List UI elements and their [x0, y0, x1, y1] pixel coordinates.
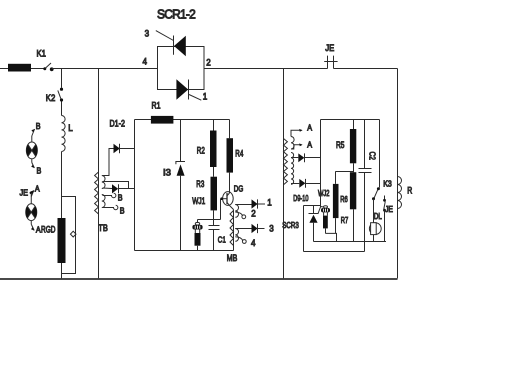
svg-text:R4: R4: [235, 149, 243, 159]
zener diode I3 column: [180, 120, 182, 162]
svg-text:I3: I3: [163, 168, 171, 178]
svg-text:A: A: [307, 122, 312, 132]
capacitor C1: [209, 226, 220, 251]
wire base lead: [221, 198, 228, 200]
wire fuse to K1: [31, 68, 44, 70]
svg-text:1: 1: [267, 197, 272, 207]
bell DL: [369, 223, 381, 242]
wire MB tap1 to diode: [235, 204, 251, 206]
wire S1 mid tap: [103, 182, 129, 189]
wire control common rail: [135, 250, 234, 252]
MB tap2 hook with terminal: [235, 212, 245, 219]
svg-text:K1: K1: [37, 49, 47, 59]
potentiometer WJ1: [192, 220, 202, 251]
svg-text:K3: K3: [383, 178, 392, 188]
transformer TB primary zigzag: [95, 172, 99, 214]
svg-text:B: B: [36, 121, 41, 131]
transformer MB primary: [230, 210, 234, 251]
MB secondary winding bottom: [235, 229, 238, 242]
wire bottom bus: [0, 278, 398, 280]
resistor R6 (filled): [350, 172, 356, 209]
zener diode I3: [176, 162, 185, 176]
diode D1: [114, 144, 135, 154]
svg-text:WJ1: WJ1: [192, 196, 205, 206]
resistor RGD (filled): [58, 218, 66, 263]
wire SCR3 bottom row: [304, 251, 365, 253]
wire SB to D10: [291, 183, 299, 185]
wire SA bottom arrow: [291, 143, 303, 149]
capacitor C2: [359, 169, 372, 252]
wire I3 to rail: [180, 176, 182, 251]
contact JE (right): [383, 196, 386, 242]
svg-text:B: B: [118, 192, 123, 202]
wire S2 top tap hook: [103, 193, 116, 197]
wire base down: [220, 199, 222, 220]
switch K3: [372, 187, 380, 223]
wire TB branch drop: [98, 69, 100, 279]
svg-text:B: B: [37, 166, 42, 176]
diode output 1: [252, 199, 266, 208]
svg-text:R1: R1: [152, 101, 161, 111]
wire C2 column: [364, 120, 366, 169]
wire K2 to L: [61, 102, 63, 116]
wire SA top arrow: [291, 129, 303, 137]
wire R6 to gate rail: [353, 209, 355, 241]
wire K2 branch drop: [61, 69, 63, 88]
MB secondary winding top: [235, 205, 238, 218]
wire S1 bottom tap to D2: [103, 187, 113, 190]
svg-text:4: 4: [143, 57, 148, 67]
svg-text:R7: R7: [341, 215, 349, 225]
svg-text:WJ2: WJ2: [318, 188, 330, 198]
diode D10: [299, 179, 320, 188]
svg-text:2: 2: [251, 208, 256, 218]
wire K3 column: [379, 120, 381, 188]
svg-text:2: 2: [206, 58, 211, 68]
svg-text:B: B: [120, 205, 125, 215]
lamp A: [26, 204, 37, 221]
switch K2: [58, 88, 63, 102]
wire rectified column right: [320, 120, 322, 207]
svg-text:SCR1-2: SCR1-2: [157, 8, 196, 22]
svg-text:DL: DL: [374, 211, 382, 221]
TB secondary winding S2: [102, 195, 105, 208]
wire JE contact to right corner: [334, 68, 398, 70]
wire S1 top tap to D1: [103, 149, 114, 176]
switch K1: [43, 63, 53, 71]
wire rectifier output column: [134, 120, 136, 251]
transformer A primary zigzag: [284, 139, 288, 185]
potentiometer WJ2: [321, 206, 331, 234]
svg-text:DG: DG: [234, 184, 244, 194]
svg-text:D1-2: D1-2: [110, 118, 126, 128]
node base junction: [220, 197, 223, 200]
svg-text:R5: R5: [336, 140, 345, 150]
svg-text:R3: R3: [196, 179, 204, 189]
diode D9: [298, 153, 320, 162]
SCR1-2 box: [158, 47, 205, 90]
SCR bottom (points right): [176, 79, 201, 100]
transformer A secondary SA: [291, 137, 294, 149]
lamp A bottom arrow: [31, 221, 34, 231]
wire K1 to SCR box: [52, 68, 158, 70]
transistor DG (UJT): [223, 192, 234, 210]
lamp B circuit: top arrow: [31, 129, 34, 142]
lamp B: [26, 142, 37, 159]
wire SCR3 left edge: [303, 206, 305, 252]
svg-text:D9-10: D9-10: [293, 193, 308, 203]
wire right bus vertical: [397, 69, 399, 279]
svg-text:SCR3: SCR3: [282, 220, 299, 230]
svg-text:K2: K2: [46, 93, 56, 103]
resistor R3 (filled): [211, 177, 218, 211]
RGD parallel box: [62, 197, 76, 274]
wire R2 column top: [213, 120, 215, 131]
svg-text:MB: MB: [227, 253, 238, 263]
lamp B bottom arrow: [31, 159, 34, 168]
svg-text:A: A: [36, 224, 41, 234]
svg-text:C2: C2: [368, 152, 378, 161]
RGD diamond mark: [70, 231, 76, 237]
SCR top (points left): [156, 31, 186, 57]
svg-text:4: 4: [251, 238, 256, 248]
thyristor SCR3: [309, 206, 321, 242]
wire R4 column top: [229, 120, 231, 139]
wire right box top row: [321, 119, 380, 121]
TB secondary winding S1: [102, 176, 105, 189]
wire horizontal WJ1/C1/base: [198, 219, 221, 221]
wire SCR3 top row: [304, 205, 321, 207]
svg-text:3: 3: [269, 223, 274, 233]
wire L down to bus: [61, 152, 63, 279]
wire main top line left of fuse: [0, 68, 8, 70]
svg-text:RGD: RGD: [41, 225, 56, 235]
wire right section drop: [283, 69, 285, 279]
wire R3 to C1: [213, 211, 215, 226]
wire R7 top row: [336, 171, 354, 173]
resistor R5 (filled): [350, 129, 356, 163]
transformer A secondary SB: [291, 153, 294, 185]
wire SB to D9: [291, 157, 298, 159]
svg-text:R: R: [407, 185, 412, 195]
svg-text:TB: TB: [98, 223, 108, 233]
lamp A top arrow: [30, 190, 34, 204]
wire SCR box to JE contact: [204, 68, 328, 70]
svg-text:1: 1: [203, 92, 208, 102]
relay coil R: [398, 177, 402, 209]
svg-text:JE: JE: [325, 43, 334, 53]
resistor R1 (filled): [151, 116, 174, 124]
wire R5-R6: [353, 163, 355, 172]
fuse RD (filled): [8, 64, 31, 72]
diode output 3: [252, 224, 265, 233]
inductor L: [62, 116, 66, 152]
wire WJ2/R7 bottom U: [326, 233, 337, 241]
relay contact JE (top): [324, 56, 337, 69]
resistor R2 (filled): [210, 131, 217, 168]
svg-text:A: A: [35, 183, 40, 193]
svg-text:3: 3: [145, 29, 150, 39]
wire gate rail: [314, 241, 387, 243]
svg-text:JE: JE: [20, 188, 29, 198]
resistor R4 (filled): [227, 138, 234, 172]
wire R4 to transistor: [229, 173, 231, 193]
wire R2-R3: [213, 167, 215, 177]
svg-text:R2: R2: [197, 145, 205, 155]
wire S2 bottom tap hook: [103, 205, 118, 209]
diode D2: [112, 184, 135, 193]
svg-text:R6: R6: [340, 194, 348, 204]
wire R5 column top: [353, 120, 355, 130]
svg-text:C1: C1: [218, 234, 226, 244]
svg-text:L: L: [68, 123, 73, 133]
svg-text:A: A: [307, 139, 312, 149]
resistor R7 (filled): [333, 171, 339, 233]
wire MB tap3 to diode: [235, 228, 251, 230]
MB tap4 hook with terminal: [235, 237, 246, 244]
wire R1 row: [135, 119, 230, 121]
svg-text:JE: JE: [385, 204, 393, 214]
